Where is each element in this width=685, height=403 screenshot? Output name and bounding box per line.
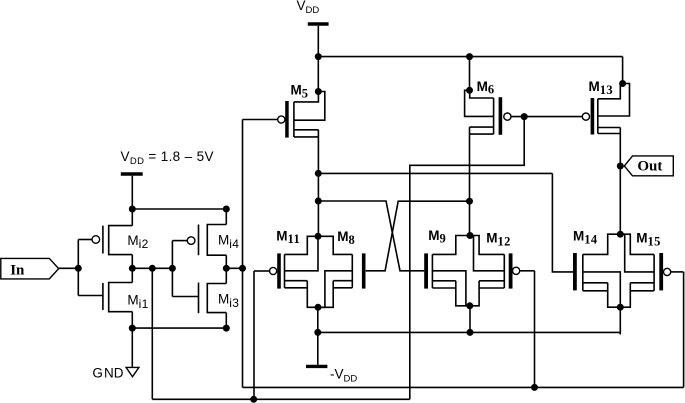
node M6 gate junction [521, 113, 528, 120]
transistor M9 (NMOS, pair 2 left) [424, 236, 470, 306]
node pair 2 top [467, 232, 474, 239]
transistor M13 (PMOS) [582, 84, 629, 135]
wire inverter 2 gate riser [171, 241, 173, 297]
svg-text:M13: M13 [589, 79, 614, 97]
svg-text:M15: M15 [636, 231, 661, 249]
node B riser junction [239, 265, 246, 272]
wire pair 3 bottom to -VDD rail end [619, 307, 621, 334]
svg-text:Mi2: Mi2 [127, 233, 148, 251]
node M11 gate riser / node A wire [250, 396, 257, 403]
node inverter 2 output [223, 265, 230, 272]
node VDD/M5 junction [315, 53, 322, 60]
node A riser junction [149, 265, 156, 272]
transistor M15 (PMOS, pair 3 right) [620, 234, 683, 307]
svg-text:M6: M6 [477, 79, 495, 97]
node -VDD rail / pair 1 [314, 329, 321, 336]
wire M5 gate lead [243, 119, 278, 121]
wire inverter A node to M6/M13 gates (riser x410, y165) [410, 117, 524, 400]
wire inverter GND rail [132, 327, 226, 329]
wire node B bottom run to M15 gate riser [243, 386, 684, 388]
wire inverter VDD stem [131, 176, 133, 209]
node M13 source [619, 80, 626, 87]
power symbol VDD bar (inverter supply) [121, 172, 143, 175]
wire M6/M13 gate lead [511, 116, 582, 118]
svg-text:M5: M5 [291, 83, 309, 101]
node -VDD rail / pair 2 [467, 329, 474, 336]
wire M5 drain column down [317, 137, 319, 236]
wire pair 1 bottom to -VDD rail [317, 307, 319, 332]
wire P1 column to M9 gate (with diagonal) [318, 201, 424, 271]
node M12 gate riser / node B wire [531, 384, 538, 391]
svg-text:M8: M8 [337, 229, 355, 247]
wire node A bottom run [152, 398, 410, 400]
transistor M14 (NMOS, pair 3 left) [573, 234, 620, 307]
node inverter rail / Mi2 [129, 206, 136, 213]
transistor Mi1 (NMOS inverter 1) [78, 268, 132, 328]
svg-text:M12: M12 [486, 231, 511, 249]
node inverter rail / Mi4 [223, 206, 230, 213]
node P2 column / M8-gate wire junction [466, 198, 473, 205]
svg-text:Out: Out [637, 158, 662, 174]
wire M13 drain column down to Out and pair 3 [619, 134, 621, 235]
wire VDD rail corner down to M13 [622, 57, 624, 84]
wire In lead [59, 267, 79, 269]
node GND rail / Mi1 [129, 325, 136, 332]
wire inverter VDD rail [132, 208, 226, 210]
wire -VDD rail [318, 331, 621, 333]
node Out junction [617, 163, 624, 170]
svg-text:M11: M11 [276, 228, 300, 246]
wire node B riser (inv2 output to M5 gate and bottom wire) [242, 120, 244, 388]
wire -VDD stub [317, 332, 319, 364]
wire M6 drain column down to pair 2 [469, 134, 471, 235]
svg-text:G: G [92, 366, 103, 381]
wire pair 2 bottom to -VDD rail [469, 306, 471, 333]
node pair 1 bottom [315, 304, 322, 311]
svg-text:Mi1: Mi1 [127, 293, 148, 311]
svg-text:-VDD: -VDD [330, 366, 357, 384]
svg-text:Mi3: Mi3 [218, 292, 239, 310]
ground stem [131, 328, 133, 367]
Out flag [624, 156, 673, 176]
node pair 1 top [315, 233, 322, 240]
node pair 3 top [617, 231, 624, 238]
node M6 source [466, 87, 473, 94]
svg-text:M14: M14 [573, 229, 598, 247]
node GND rail / Mi3 [223, 325, 230, 332]
node inverter 2 gate riser junction [169, 265, 176, 272]
svg-text:Mi4: Mi4 [218, 233, 239, 251]
wire M11 gate riser [253, 271, 255, 399]
transistor M8 (NMOS, pair 1 right) [318, 236, 366, 307]
wire M12 gate riser down to node-B wire [534, 271, 536, 388]
node In [75, 265, 82, 272]
power label VDD (top) [297, 0, 320, 16]
node pair 3 bottom [617, 304, 624, 311]
transistor Mi3 (NMOS inverter 2) [172, 268, 226, 328]
wire VDD stem [317, 26, 319, 57]
node P1 column / wire y173 junction [315, 170, 322, 177]
In flag [1, 258, 59, 279]
wire VDD rail [318, 56, 622, 58]
power symbol -VDD bar [306, 365, 327, 368]
node pair 2 bottom [466, 302, 473, 309]
svg-text:VDD: VDD [297, 0, 320, 16]
node inverter 1 output / Mi drains [129, 265, 136, 272]
node P1 column / M9-gate wire junction [315, 198, 322, 205]
wire node P1 drain to M6/M13 gates feed (y=173) [318, 173, 573, 272]
wire inverter 2 output row [226, 267, 242, 269]
wire In gate riser [77, 240, 79, 296]
transistor M11 (PMOS, pair 1 left) [254, 236, 318, 307]
svg-text:VDD = 1.8 – 5V: VDD = 1.8 – 5V [121, 149, 214, 167]
wire VDD to M6 source node [469, 57, 471, 91]
wire M15 gate riser (right edge) [683, 272, 685, 388]
power symbol VDD bar (top) [308, 22, 329, 26]
wire inverter 1 output row [132, 267, 172, 269]
transistor Mi2 (PMOS inverter 1) [78, 209, 132, 268]
transistor M5 (PMOS) [278, 92, 325, 138]
node M5 source [315, 88, 322, 95]
transistor Mi4 (PMOS inverter 2) [172, 209, 226, 268]
transistor M12 (PMOS, pair 2 right) [470, 236, 535, 306]
wire M8 gate to P2 column (with diagonal) [366, 201, 470, 271]
svg-text:M9: M9 [428, 228, 446, 246]
ground symbol triangle [126, 367, 139, 376]
svg-text:In: In [10, 262, 25, 278]
node VDD/M6 junction [466, 53, 473, 60]
wire node A riser down [151, 268, 153, 399]
transistor M6 (PMOS, mirrored) [465, 90, 511, 134]
svg-text:ND: ND [104, 366, 124, 381]
wire VDD to M5 source node [317, 57, 319, 92]
